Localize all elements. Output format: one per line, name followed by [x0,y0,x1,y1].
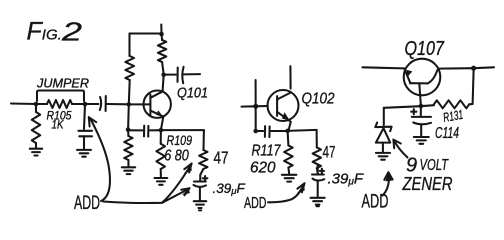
label R105 [47,109,72,123]
svg-text:C114: C114 [435,125,459,142]
svg-text:620: 620 [250,159,276,176]
ground under R109 [155,178,168,185]
label 47 (Q102) [323,143,336,162]
capacitor shunt at R105 right [78,131,92,149]
svg-text:ADD: ADD [74,192,100,214]
ground under shunt capacitor [77,150,91,157]
resistor 47 Q102 (vertical) [313,147,321,173]
zener diode 9V [375,123,391,153]
svg-text:1K: 1K [52,118,65,132]
wire collector node to transistor [163,75,164,91]
label plus Q101 cap [203,176,208,181]
node Q101 collector [161,73,166,78]
ground under R117 [282,175,297,182]
label 620 [250,159,276,176]
capacitor .39uF Q102 (electrolytic) [312,165,324,197]
wire Q102 47 corner [316,130,318,148]
ground under .39uF Q101 [194,201,207,210]
label plus Q102 cap [320,169,324,173]
wire base node down [127,104,130,129]
node lower-left junction [126,127,131,132]
label R117 [252,142,282,159]
svg-text:47: 47 [323,143,336,162]
svg-text:47: 47 [214,148,229,168]
capacitor C114 (electrolytic) [412,106,431,136]
wire Q102 emitter to 47 branch [288,130,317,131]
arrow ADD to 47 resistor [103,164,192,203]
wire to coupling cap [85,103,99,105]
wire coupling cap to base node [107,103,129,105]
arrow ADD middle to cap [268,183,305,202]
label Q101 [177,86,208,102]
label ZENER [402,173,453,194]
wire Q101 emitter down [161,117,163,130]
node Q101 emitter [159,128,164,133]
node rail right junction [471,66,476,71]
arrow label to zener [393,140,407,158]
wire top rail Q101 [130,32,162,34]
transistor Q107 [404,59,441,96]
label Q102 [302,91,335,108]
wire 47 branch corner [202,130,204,150]
ground under .39uF Q102 [311,198,325,206]
wire Q102 emitter down [289,122,291,130]
node rail junction [159,32,164,37]
node Q102 emitter [285,129,290,134]
label .39uF (Q102) [328,171,364,188]
label plus C114 [411,109,416,114]
svg-text:Q107: Q107 [405,37,446,60]
label 9 VOLT [406,155,449,177]
wire Q102 base vertical [255,80,257,131]
svg-text:Q102: Q102 [302,91,335,108]
node Q102 lower-left [253,129,258,134]
capacitor Q102 base-emitter bypass [256,126,288,137]
wire supply stub [160,25,162,34]
resistor 47 Q101 (vertical) [199,150,207,175]
node Q102 base cross [253,104,258,109]
label 680 [164,148,189,165]
svg-text:Q101: Q101 [177,86,208,102]
svg-text:.39μF: .39μF [213,181,246,197]
label R131 [442,107,464,125]
wire R131 up to rail [473,71,474,105]
resistor base-upper (vertical) [125,34,134,105]
node R105 right junction [83,102,88,107]
resistor R105 1K (horizontal) [36,100,85,108]
resistor R117 620 (vertical) [284,131,293,174]
resistor R131 (horizontal) [421,100,473,108]
wire cap lead from R105 right [84,104,85,129]
svg-text:R109: R109 [167,133,193,148]
svg-text:ADD: ADD [244,195,267,212]
wire Q102 base stub [242,105,268,108]
wire input left [11,102,36,105]
label 1K [52,118,65,132]
label Fig. 2 [27,16,83,46]
capacitor output coupling Q101 [166,67,200,83]
label .39uF (Q101) [213,181,246,197]
label JUMPER [36,76,89,91]
capacitor coupling C-in [100,96,106,111]
label ADD (middle) [244,195,267,212]
svg-text:R117: R117 [252,142,282,159]
svg-text:VOLT: VOLT [420,157,450,174]
ground under zener [376,153,390,160]
wire Q107 base stem [419,83,421,106]
node Q107 base [419,104,424,109]
capacitor .39uF Q101 (electrolytic) [194,175,207,201]
wire emitter to 47 branch [161,129,204,131]
svg-text:ZENER: ZENER [402,173,453,194]
label ADD (left) [74,192,100,214]
wire base node to zener corner [384,106,421,108]
label Q107 [405,37,446,60]
node Q101 base [127,102,132,107]
arrow ADD to shunt capacitor [89,117,110,201]
wire zener lead down [383,108,385,125]
svg-text:JUMPER: JUMPER [36,76,89,91]
label C114 [435,125,459,142]
resistor R109 680 (vertical) [156,130,165,177]
capacitor base-emitter bypass [128,126,161,137]
svg-text:.39μF: .39μF [328,171,364,188]
arrow ADD right to zener [383,172,393,195]
label 47 (Q101) [214,148,229,168]
resistor base-lower (vertical) [124,130,132,167]
ground under C114 [414,137,429,144]
svg-text:6 80: 6 80 [164,148,189,165]
transistor Q101 [129,91,171,118]
wire rail left Q107 [363,67,405,68]
ground under input resistor [30,149,42,156]
svg-text:2: 2 [61,16,83,46]
label R109 [167,133,193,148]
transistor Q102 [268,90,299,122]
wire rail right Q107 [438,67,473,69]
arrow ADD to .39uF capacitor [162,188,190,203]
wire rail right end [474,66,494,69]
wire jumper loop [37,91,84,102]
wire Q102 collector [289,66,291,88]
node input junction [34,102,39,107]
ground under base-lower resistor [122,167,135,174]
resistor collector load (vertical) [158,34,166,75]
resistor shunt at input (vertical) [32,104,40,148]
label ADD (right) [362,191,389,213]
